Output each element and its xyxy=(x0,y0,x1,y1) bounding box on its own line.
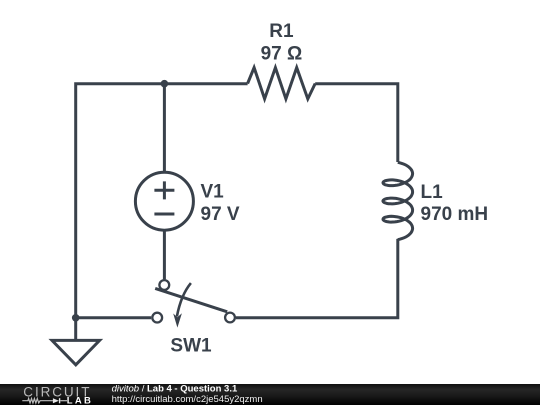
ground triangle xyxy=(52,340,100,364)
wire top-right horizontal and right vertical to inductor xyxy=(315,84,398,162)
logo resistor squiggle and diode xyxy=(22,399,53,403)
switch SW1 arrow arc xyxy=(177,283,191,316)
svg-text:97 Ω: 97 Ω xyxy=(261,44,303,65)
voltage source V1 circle xyxy=(135,172,193,230)
ground stem xyxy=(74,318,77,341)
svg-text:LAB: LAB xyxy=(67,395,93,405)
svg-text:R1: R1 xyxy=(269,21,294,42)
switch SW1 right terminal xyxy=(225,313,235,323)
footer bar xyxy=(0,384,540,405)
switch SW1 arrowhead xyxy=(173,313,182,327)
wire V1 bottom to switch xyxy=(163,230,166,279)
svg-text:L1: L1 xyxy=(421,182,444,203)
ground node junction dot xyxy=(72,314,80,322)
wire top-left horizontal xyxy=(76,84,248,318)
switch SW1 top terminal xyxy=(159,280,169,290)
wire middle vertical from node A to V1 xyxy=(163,84,166,173)
V1 minus sign xyxy=(154,213,174,216)
switch SW1 blade xyxy=(155,288,227,311)
svg-text:970 mH: 970 mH xyxy=(421,204,489,225)
svg-text:SW1: SW1 xyxy=(170,336,212,357)
wire right vertical below inductor xyxy=(236,239,398,318)
svg-text:V1: V1 xyxy=(201,182,225,203)
V1 plus sign xyxy=(154,181,174,199)
svg-text:97 V: 97 V xyxy=(201,204,240,225)
switch SW1 left terminal xyxy=(152,313,162,323)
node A junction dot top xyxy=(161,80,169,88)
wire bottom-left horizontal xyxy=(76,316,152,319)
resistor R1 xyxy=(248,68,316,99)
inductor L1 coil xyxy=(383,162,413,239)
svg-text:http://circuitlab.com/c2je545y: http://circuitlab.com/c2je545y2qzmn xyxy=(112,394,263,405)
